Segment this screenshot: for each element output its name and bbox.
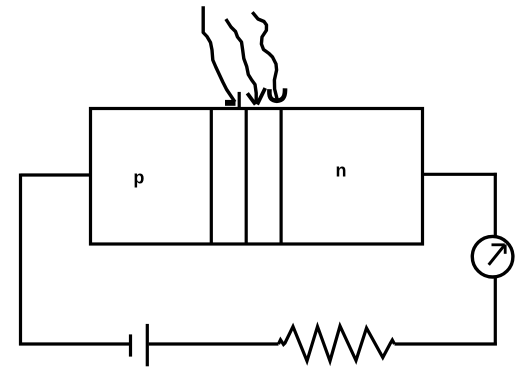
light ray arrow 3 head (u-shaped cup) <box>269 91 285 101</box>
resistor R1 (zigzag) <box>279 326 395 361</box>
battery B1 long plate (positive) <box>146 324 149 366</box>
meter M1 (galvanometer circle) <box>472 236 513 277</box>
wire: right horizontal from n-region to right rail <box>422 173 497 176</box>
wire: right vertical rail above meter <box>494 173 497 236</box>
wire: left vertical rail <box>19 174 22 346</box>
meter M1 needle head top barb <box>492 243 505 246</box>
depletion region line 2 <box>245 107 248 246</box>
depletion region line 3 <box>280 107 283 246</box>
light ray arrow 2 shaft <box>227 21 256 102</box>
battery B1 short plate (negative) <box>129 334 132 356</box>
meter M1 needle shaft <box>489 246 504 265</box>
light ray arrow 1 head blob <box>225 100 236 106</box>
wire: resistor to right rail <box>395 342 497 345</box>
light ray arrow 1 shaft <box>203 8 234 101</box>
wire: left horizontal from p-region to left rail <box>21 173 90 176</box>
wire: right vertical rail below meter <box>494 278 497 346</box>
light ray arrow 2 head left barb <box>248 95 254 103</box>
svg-text:n: n <box>336 161 347 181</box>
light ray arrow 3 shaft <box>253 14 276 98</box>
light ray arrow 1 head barb <box>238 94 241 106</box>
meter M1 needle head right barb <box>504 245 507 254</box>
wire: battery to resistor <box>149 342 279 345</box>
light ray arrow 2 head right barb <box>258 90 264 103</box>
photodiode body (p-n junction block) <box>91 109 423 245</box>
svg-text:p: p <box>133 167 144 187</box>
wire: bottom left to battery <box>19 342 129 345</box>
depletion region line 1 <box>210 107 213 246</box>
